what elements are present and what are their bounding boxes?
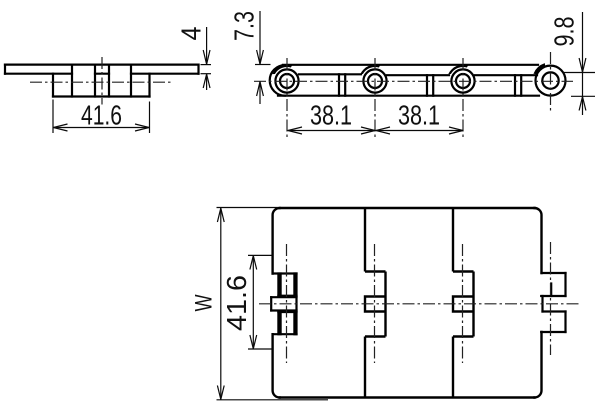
plate underside segments — [5, 73, 72, 75]
svg-text:38.1: 38.1 — [398, 100, 440, 131]
plate underside segments — [299, 73, 361, 75]
plate 1 left edge with corners — [273, 208, 280, 274]
dimension 41.6 (end view) — [53, 100, 150, 134]
pin 3 — [451, 69, 474, 92]
dimension 38.1 (first) — [288, 127, 376, 134]
plate top edge — [5, 63, 199, 65]
svg-text:41.6: 41.6 — [81, 100, 122, 131]
svg-text:9.8: 9.8 — [549, 17, 580, 47]
svg-text:4: 4 — [176, 27, 207, 41]
pin vertical center lines — [287, 52, 551, 138]
knuckle division lines — [71, 65, 73, 97]
dimension 38.1 (second) — [376, 127, 464, 134]
joint between plate 2 and plate 3 — [453, 208, 474, 398]
link gap dividers — [338, 74, 340, 95]
hinge block right edge — [148, 74, 150, 97]
side view horizontal center line — [254, 80, 573, 82]
left end cap — [270, 65, 285, 96]
plate 3 right hinge feature — [541, 273, 565, 332]
plate bottom edge — [280, 396, 535, 398]
svg-text:38.1: 38.1 — [310, 100, 352, 131]
plate 1 left hinge feature — [271, 274, 296, 335]
pin 1 — [275, 69, 298, 92]
plate 3 right edge with corners — [535, 208, 542, 273]
plate left end — [4, 65, 6, 74]
svg-text:W: W — [191, 294, 218, 311]
dimension 9.8 — [563, 12, 595, 115]
hinge block left edge — [52, 74, 54, 97]
plate top edge — [280, 207, 535, 209]
hinge axis center lines — [287, 242, 551, 363]
chain bottom edge — [278, 95, 539, 97]
top view horizontal center line — [259, 303, 580, 305]
svg-text:7.3: 7.3 — [229, 11, 260, 41]
dimension 41.6 (top view) — [248, 255, 273, 349]
svg-text:41.6: 41.6 — [221, 275, 252, 331]
dimension 4 (plate thickness) — [201, 27, 212, 90]
chain top edge — [283, 64, 538, 66]
end view horizontal center line — [30, 81, 171, 83]
plate right end — [197, 65, 199, 74]
end view vertical center line — [101, 57, 103, 105]
hinge block bottom — [53, 95, 150, 97]
dimension 7.3 — [255, 11, 271, 104]
joint between plate 1 and plate 2 — [365, 208, 386, 398]
dimension W — [217, 208, 329, 400]
pin 4 (end barrel) — [536, 66, 566, 96]
pin 2 — [363, 69, 386, 92]
